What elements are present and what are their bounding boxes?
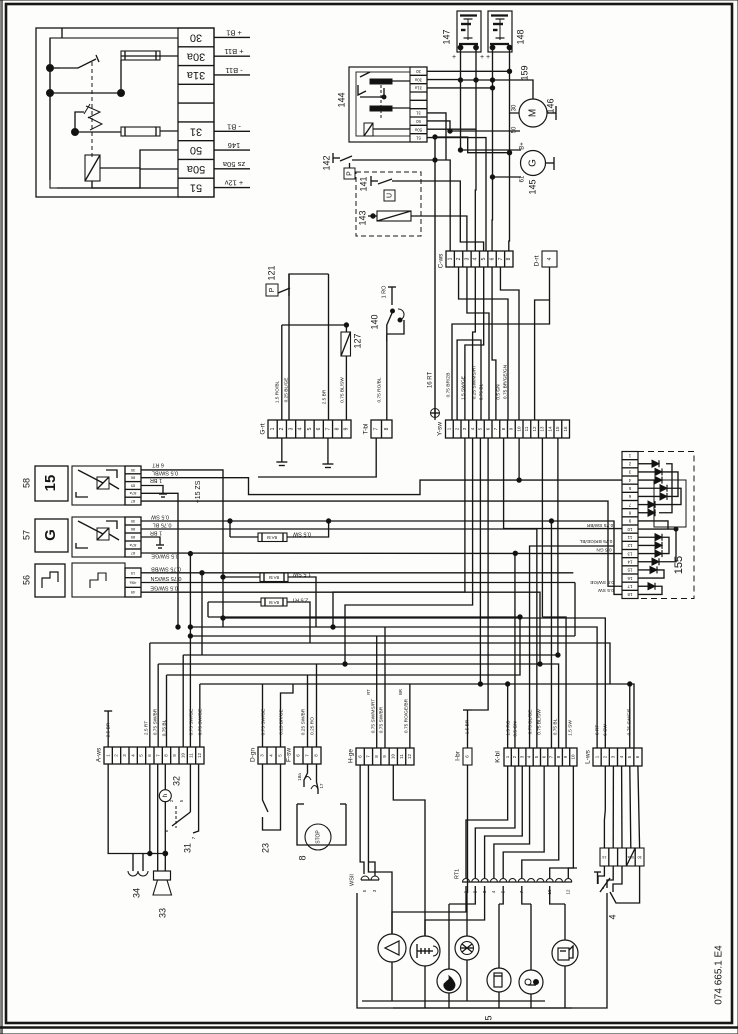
glow plug 143	[368, 211, 411, 221]
svg-text:13: 13	[627, 551, 633, 556]
label BR mid	[398, 689, 403, 695]
svg-text:4: 4	[298, 427, 304, 430]
label 1 BR 57	[150, 530, 162, 536]
wire 143 out	[411, 216, 467, 251]
wire mid h664	[158, 664, 558, 748]
connector A strip	[104, 747, 204, 764]
diode at 155 pin 2	[638, 460, 659, 467]
wire mid h618	[223, 618, 605, 748]
wire mid v575	[574, 583, 576, 637]
starter motor M 146	[519, 99, 547, 127]
wire A7 down	[157, 765, 159, 872]
node Y10-j	[517, 478, 521, 482]
svg-text:12: 12	[565, 889, 570, 895]
wire mid h655	[183, 654, 558, 656]
label 30 at M	[512, 104, 518, 111]
wire K2 down	[475, 766, 515, 878]
battery 148 plates	[490, 16, 509, 45]
wire RT1 p1 down	[392, 886, 466, 934]
node tl-3	[118, 90, 125, 97]
node tl-4	[72, 129, 79, 136]
svg-text:G-rt: G-rt	[260, 423, 267, 434]
node Y5-j	[478, 682, 482, 686]
connector C strip	[446, 251, 513, 267]
label 2.5 RT a	[143, 721, 149, 735]
terminal stub + B11	[214, 47, 250, 56]
svg-text:0.75 BL: 0.75 BL	[552, 718, 558, 735]
svg-text:58: 58	[21, 478, 31, 488]
connector K strip	[504, 748, 577, 766]
wire H9 up	[384, 627, 386, 748]
wire 57-85 gnd	[141, 537, 164, 548]
node fuse1-j	[326, 519, 330, 523]
svg-text:3: 3	[288, 427, 294, 430]
generator G 145	[521, 151, 546, 176]
diode at 155 pin 6	[638, 493, 667, 500]
node tl-1	[47, 65, 54, 72]
label 0.75 BR/GE/BL 155	[579, 538, 612, 544]
warning lamp triangle	[378, 934, 406, 962]
svg-text:RT: RT	[366, 689, 371, 695]
wire 57-87 run	[141, 552, 622, 555]
wire C2-Y8	[459, 267, 508, 420]
svg-text:H-ge: H-ge	[348, 749, 355, 763]
label 2.5 BR a	[105, 722, 111, 737]
wire C7-Y10	[500, 267, 519, 420]
wire ign staircase	[598, 866, 622, 892]
wire C8 up	[508, 113, 511, 251]
svg-text:144: 144	[336, 92, 346, 107]
svg-text:16: 16	[627, 576, 633, 581]
svg-text:85: 85	[130, 535, 135, 540]
terminal stub + 12v	[214, 179, 250, 188]
stop box 8	[297, 804, 346, 845]
svg-text:D-rt: D-rt	[534, 255, 541, 266]
diode at 155 pin 5	[638, 485, 667, 492]
label 1.5 SW k	[567, 720, 573, 736]
svg-text:30: 30	[130, 468, 135, 473]
wire C6-Y7	[492, 267, 496, 420]
wire tl-6	[75, 112, 84, 132]
label 56	[21, 575, 31, 585]
ground at G	[545, 157, 554, 170]
svg-text:D-gn: D-gn	[250, 748, 257, 762]
node K7-j	[549, 519, 553, 523]
svg-text:50: 50	[416, 119, 421, 124]
label fuse S3	[291, 597, 308, 603]
svg-text:C-ws: C-ws	[438, 253, 445, 269]
svg-text:1: 1	[270, 427, 276, 430]
wire WSII stub	[368, 862, 375, 876]
label D-rt	[534, 255, 541, 266]
wire Dgn3 up	[262, 684, 264, 747]
wire 51	[57, 187, 178, 189]
relay 57 box	[72, 517, 125, 557]
label 0.75 SW/GE d	[260, 709, 266, 736]
svg-text:56: 56	[21, 575, 31, 585]
svg-text:10: 10	[390, 754, 395, 760]
svg-text:0.25 BL/GE: 0.25 BL/GE	[283, 378, 289, 403]
label 6 SW l	[602, 724, 608, 736]
wire H7 down	[368, 765, 392, 934]
wire 155 p3 bus	[662, 472, 678, 497]
svg-text:10: 10	[516, 426, 521, 432]
wire 16RT jog	[435, 137, 512, 155]
svg-text:142: 142	[321, 155, 331, 170]
svg-text:148: 148	[515, 29, 525, 44]
wire C3-Y6	[467, 267, 489, 420]
node h627-a	[188, 625, 192, 629]
label 0.75 SW/MS/RT h	[370, 699, 376, 734]
svg-text:2: 2	[279, 427, 285, 430]
wire fuse-b	[75, 131, 178, 132]
svg-text:49a: 49a	[129, 580, 136, 585]
svg-text:0.25 RO: 0.25 RO	[309, 717, 315, 735]
svg-text:0.5 SW/GE: 0.5 SW/GE	[590, 579, 614, 585]
wire Y3 cascade	[333, 438, 465, 627]
wire 155 p5 bus	[655, 488, 681, 504]
choke lamp	[487, 968, 511, 992]
svg-text:0.5 SW: 0.5 SW	[150, 514, 169, 520]
svg-text:+: +	[452, 54, 456, 61]
svg-text:11: 11	[399, 754, 404, 759]
wire 58-87 run	[141, 501, 622, 586]
label 121	[266, 265, 276, 280]
diode pack 155 dashed box	[638, 452, 694, 599]
svg-text:5: 5	[307, 427, 313, 430]
connector RT1	[454, 869, 572, 895]
svg-text:87a: 87a	[129, 543, 136, 548]
dashed link 144	[380, 80, 382, 120]
svg-text:0.75 SW/BR: 0.75 SW/BR	[586, 522, 613, 528]
wire K5 up	[536, 529, 538, 748]
wire 50 to M	[450, 130, 520, 132]
ignition switch 4	[594, 866, 640, 903]
wire Y8 cascade	[504, 438, 622, 529]
sender 140	[387, 287, 404, 341]
svg-text:4: 4	[547, 257, 553, 260]
svg-text:15: 15	[42, 475, 59, 492]
svg-text:146: 146	[228, 141, 241, 150]
node L5-j	[628, 682, 632, 686]
wire C1 up	[435, 160, 450, 251]
relay 58 innards	[76, 470, 119, 497]
contact arrows	[84, 104, 102, 130]
relay 56 terminals	[125, 568, 141, 597]
terminal stub zs 50a	[214, 160, 250, 169]
wire K8 down	[522, 766, 559, 878]
svg-text:87: 87	[130, 551, 135, 556]
battery 148 box	[488, 11, 512, 52]
label 0.75 SW/GE a2	[197, 709, 203, 736]
wire 56-15 run	[141, 572, 573, 574]
wire Y10 cascade	[518, 438, 520, 480]
svg-text:17: 17	[627, 584, 633, 589]
svg-text:30: 30	[130, 519, 135, 524]
label 0.25 SW/MS/RT	[471, 365, 477, 400]
label A-ws	[96, 747, 103, 762]
label 5	[483, 1015, 493, 1020]
ignition connector strip	[600, 848, 644, 866]
wire K7 up	[550, 521, 552, 748]
wire K4 up	[530, 546, 614, 748]
wire RT1 p3 down	[425, 886, 485, 936]
label 144	[336, 92, 346, 107]
svg-text:6 SW: 6 SW	[602, 724, 608, 736]
connector G strip	[268, 420, 351, 438]
svg-text:G: G	[42, 529, 59, 541]
wire 58-86 run	[141, 478, 622, 495]
svg-text:30: 30	[416, 69, 421, 74]
svg-text:57: 57	[21, 530, 31, 540]
wire 155 p15	[638, 570, 664, 578]
diode at 155 pin 8	[638, 509, 655, 516]
fuse S1	[258, 533, 287, 542]
label 0.75 BL k	[552, 718, 558, 735]
wire C5-Y3	[465, 267, 484, 420]
wire fuse S1 feed	[228, 519, 232, 537]
label B+ at G	[520, 142, 526, 150]
diode at 155 pin 3	[638, 468, 662, 475]
svg-text:50a: 50a	[186, 163, 205, 175]
svg-text:0.75 BL: 0.75 BL	[153, 522, 172, 528]
node h636-a	[188, 634, 192, 638]
svg-text:+ B1: + B1	[226, 28, 242, 37]
wire K1 down	[466, 766, 508, 878]
label 148	[515, 29, 525, 44]
svg-text:M: M	[528, 109, 539, 117]
svg-text:85: 85	[130, 483, 135, 488]
wire RT1 p10 down	[550, 886, 565, 904]
label 0.75 BR/GE/GN	[502, 364, 508, 399]
wire 155 p9	[638, 521, 668, 529]
switch 144	[358, 72, 370, 95]
wire K4 down	[494, 766, 530, 878]
label 146	[545, 98, 555, 113]
label 57	[21, 530, 31, 540]
svg-text:- B11: - B11	[225, 66, 242, 75]
svg-text:Y-sw: Y-sw	[437, 422, 444, 436]
wire G2 down	[281, 325, 283, 420]
wire RT1 p7 down	[522, 886, 531, 904]
svg-text:I-br: I-br	[455, 750, 462, 761]
wire A7 up	[157, 664, 159, 747]
wire 57-30 run	[141, 521, 622, 594]
connector WSII	[349, 874, 379, 893]
wire F7 up	[307, 675, 309, 747]
wire RT1 p5 down	[499, 886, 503, 904]
svg-text:23: 23	[260, 843, 270, 853]
svg-text:F-sw: F-sw	[286, 748, 293, 762]
svg-text:8A 5I: 8A 5I	[269, 575, 279, 580]
relay 56 icon box	[35, 564, 65, 597]
label 147	[441, 29, 451, 44]
wire 61 from G	[490, 175, 521, 179]
node Y3-j	[331, 625, 335, 629]
label 4	[607, 914, 617, 919]
terminal stub 146	[214, 141, 250, 150]
label H-ge	[348, 749, 355, 763]
oil lamp	[437, 969, 461, 993]
label 58	[21, 478, 31, 488]
connector D cell	[542, 251, 557, 267]
wire y325 bus	[282, 324, 347, 326]
wire L5 up	[629, 684, 631, 748]
node 30-junction	[507, 69, 511, 73]
battery 147 box	[457, 11, 481, 52]
label 33	[157, 908, 167, 918]
wire +15ZS run	[141, 493, 178, 627]
drawing number	[714, 945, 725, 1005]
svg-text:18: 18	[627, 592, 633, 597]
svg-text:0.75 SW/BR: 0.75 SW/BR	[152, 708, 158, 735]
svg-text:87a: 87a	[129, 491, 136, 496]
svg-text:15: 15	[130, 571, 135, 576]
svg-text:8: 8	[384, 427, 390, 430]
symbol P 121	[266, 284, 278, 296]
wire tl-5	[159, 55, 161, 57]
label 1 RO	[381, 285, 387, 299]
svg-text:+ B11: + B11	[224, 47, 243, 56]
svg-text:7: 7	[498, 257, 504, 260]
connector 155 strip	[622, 452, 638, 599]
label 31	[182, 843, 192, 853]
wire H12 up	[409, 684, 411, 748]
label Y-sw	[437, 422, 444, 436]
svg-text:5: 5	[481, 257, 487, 260]
svg-text:0.75 SW/BR: 0.75 SW/BR	[378, 706, 384, 733]
diode at 155 pin 4	[638, 477, 662, 484]
node 127 top	[344, 323, 348, 327]
fuel gauge	[519, 970, 543, 994]
wire D down	[452, 267, 550, 420]
svg-text:51: 51	[416, 136, 421, 141]
wire relay drop 190	[188, 551, 192, 747]
wire G3 down	[288, 274, 290, 420]
wire 142 out	[352, 159, 435, 161]
label 0.25 SW/BR f	[300, 708, 306, 735]
wire C6 up	[491, 88, 493, 251]
fuse F-a	[121, 51, 160, 60]
svg-text:6: 6	[316, 427, 322, 430]
wire battery bus	[461, 80, 534, 99]
wire 16RT tail	[434, 413, 436, 420]
node 16RT-2	[433, 135, 437, 139]
svg-text:0.75 SW/BB: 0.75 SW/BB	[151, 565, 181, 571]
terminal stub - B1	[214, 122, 250, 131]
label 0.75 BL y	[478, 383, 484, 400]
wire I up	[463, 710, 472, 748]
svg-text:3: 3	[464, 257, 470, 260]
node bat-1	[458, 78, 462, 82]
label 0.75 BL a	[161, 719, 167, 736]
label 127	[352, 333, 362, 348]
svg-text:0.75 SW/GE: 0.75 SW/GE	[188, 709, 194, 736]
node tl-2	[47, 90, 54, 97]
wire tl-1	[50, 67, 60, 69]
svg-text:8A 5I: 8A 5I	[269, 600, 279, 605]
svg-text:8: 8	[334, 427, 340, 430]
relay 56 box	[72, 563, 125, 597]
wire RT1-12 up	[568, 868, 577, 878]
svg-text:159: 159	[519, 65, 529, 80]
svg-text:50: 50	[512, 126, 518, 133]
wire A12 up	[199, 684, 201, 747]
cluster box	[357, 893, 607, 1008]
wire mid h636	[190, 635, 575, 637]
label 6 RT 58	[151, 461, 163, 467]
battery 148 terminals	[486, 45, 512, 61]
svg-text:+: +	[486, 54, 490, 61]
node 16RT-1	[433, 158, 437, 162]
diode at 155 pin 15	[638, 566, 657, 573]
wire H8 up	[366, 636, 377, 748]
terminal strip 30/31/50/51	[178, 28, 214, 197]
wire horn feed	[108, 765, 165, 854]
label D-gn	[250, 748, 257, 762]
svg-text:140: 140	[369, 314, 379, 329]
svg-text:11: 11	[524, 426, 529, 431]
svg-text:L-ws: L-ws	[585, 749, 592, 763]
svg-text:10: 10	[180, 753, 185, 759]
label 0.5 SW/GE 57	[151, 553, 179, 559]
wire tl-3	[121, 56, 178, 93]
diode at 155 pin 14	[638, 558, 659, 565]
svg-text:1 BR: 1 BR	[150, 530, 162, 536]
ground G2	[276, 438, 287, 466]
node +15ZS-j	[176, 625, 180, 629]
wire ign feeds	[604, 766, 639, 848]
label 0.75 BL/SW	[339, 377, 345, 403]
wire stop a	[304, 764, 308, 787]
wire 56-49a run	[141, 582, 575, 584]
wire 56-49 run	[141, 592, 540, 664]
label 0.5 SW/GE 155	[590, 579, 614, 585]
switch contact a	[60, 55, 99, 68]
svg-text:61: 61	[520, 175, 526, 182]
sensor 127	[341, 325, 351, 420]
svg-text:0.5 SW/GE: 0.5 SW/GE	[150, 585, 178, 591]
svg-text:P: P	[269, 287, 276, 292]
wire mid h627	[190, 627, 597, 748]
wire 58-30 run	[141, 470, 223, 627]
connector Dgn strip	[258, 747, 285, 764]
svg-text:49: 49	[130, 590, 135, 595]
wire 50a from 144	[427, 80, 476, 129]
svg-text:6 RT: 6 RT	[594, 725, 600, 735]
ground G7	[322, 438, 333, 468]
wire 16RT main	[434, 137, 436, 413]
svg-text:16 RT: 16 RT	[428, 372, 434, 389]
svg-text:33: 33	[157, 908, 167, 918]
svg-text:51: 51	[190, 182, 202, 194]
wire F8 up	[316, 664, 318, 747]
relay 57 terminals	[125, 517, 141, 557]
svg-text:0.5 GN: 0.5 GN	[596, 546, 612, 552]
label 1.5 RO/BL	[274, 380, 280, 403]
switch 31	[164, 764, 198, 839]
wire 155 p17	[638, 586, 662, 594]
svg-text:0.25 BR/GE: 0.25 BR/GE	[278, 709, 284, 735]
wire relay drop 202	[200, 571, 204, 655]
svg-text:86: 86	[130, 476, 135, 481]
label 23	[260, 843, 270, 853]
wire 144-a	[360, 88, 384, 97]
wire T7 down	[258, 438, 376, 477]
coil 18a	[297, 773, 311, 781]
node fuse2-j	[221, 575, 225, 579]
label 0.5 GN y	[495, 384, 501, 400]
